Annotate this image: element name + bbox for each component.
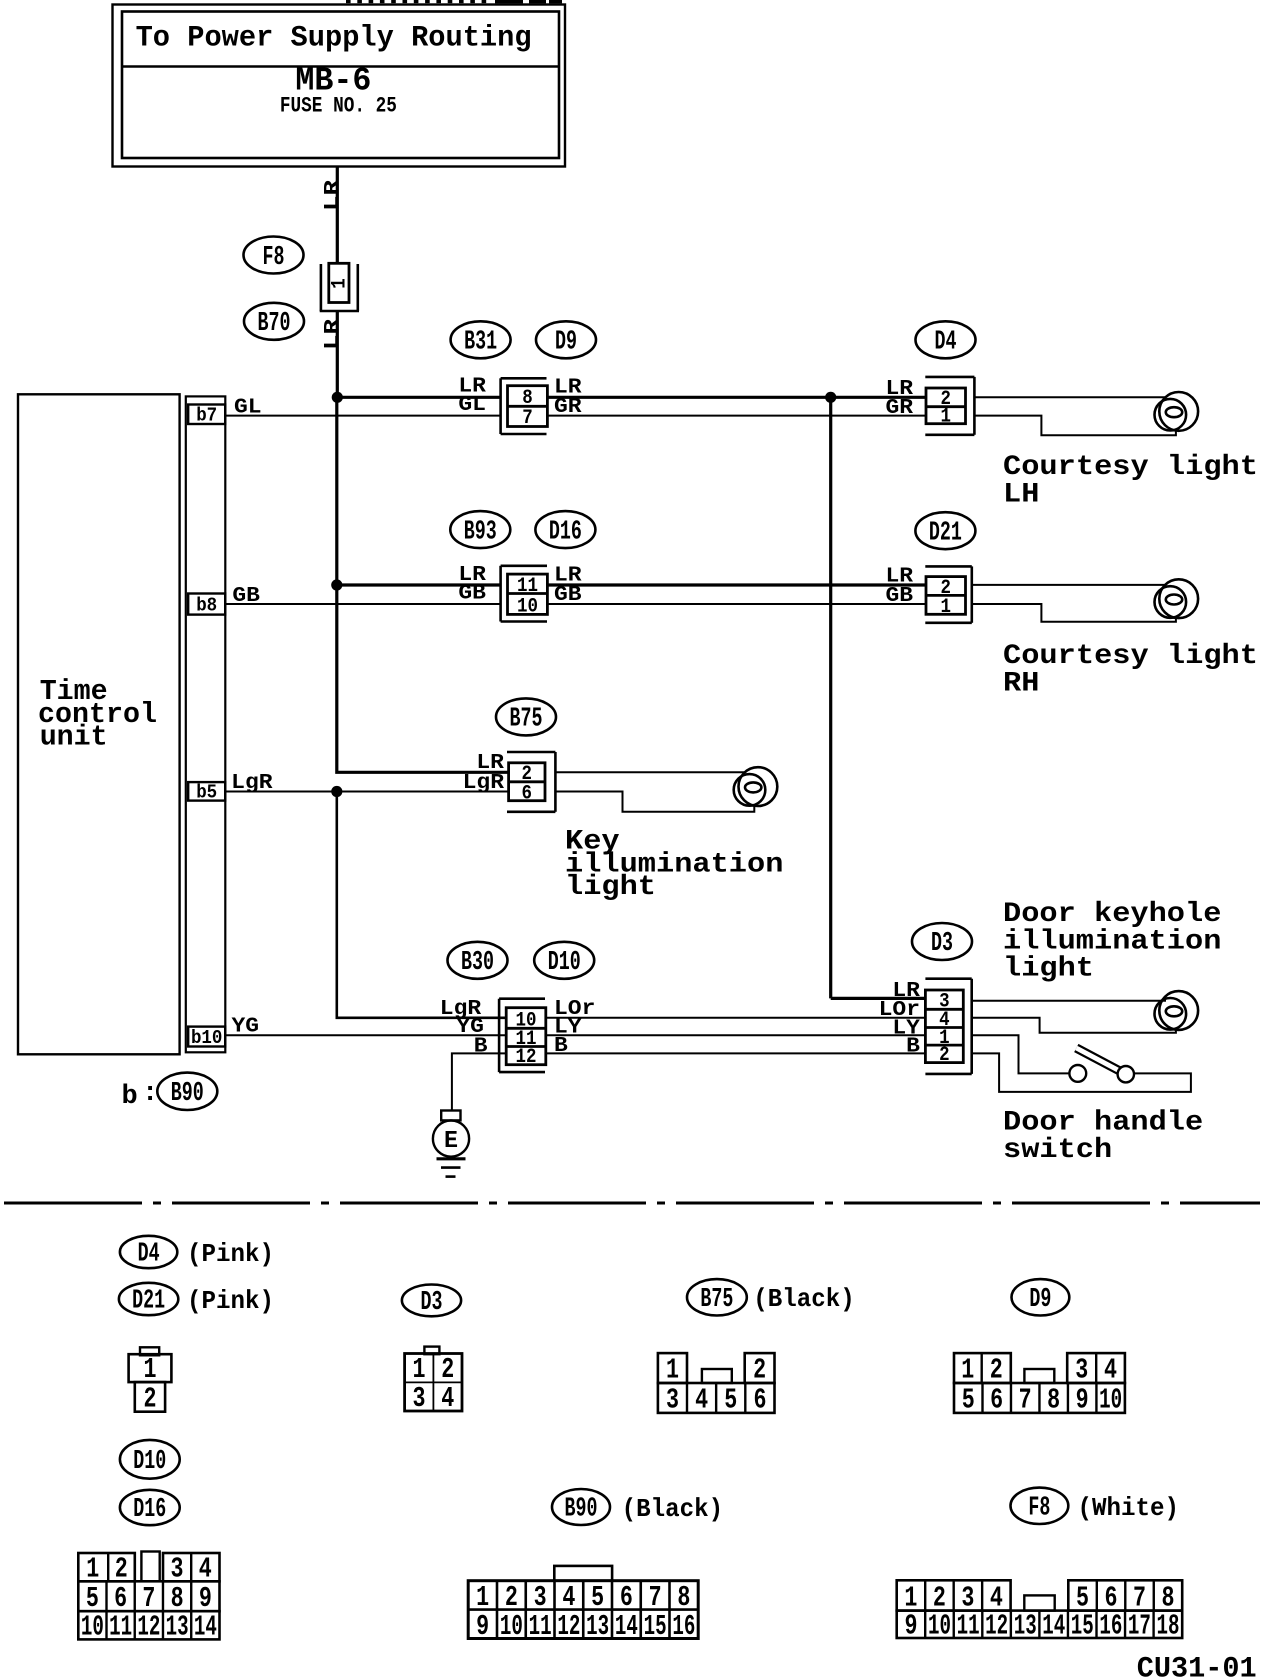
svg-text:1: 1 bbox=[666, 1354, 679, 1387]
svg-text:3: 3 bbox=[666, 1384, 679, 1417]
svg-text:(Pink): (Pink) bbox=[187, 1286, 274, 1316]
svg-text:1: 1 bbox=[940, 596, 951, 619]
svg-text:11: 11 bbox=[109, 1611, 132, 1644]
svg-text:7: 7 bbox=[1019, 1384, 1032, 1417]
svg-text:YG: YG bbox=[232, 1015, 260, 1038]
svg-text:10: 10 bbox=[81, 1611, 104, 1644]
svg-text:14: 14 bbox=[1042, 1610, 1065, 1643]
svg-text:B90: B90 bbox=[565, 1495, 598, 1525]
svg-text:GB: GB bbox=[458, 583, 486, 606]
svg-text:LR: LR bbox=[322, 319, 345, 350]
svg-text:GB: GB bbox=[886, 585, 914, 608]
svg-text:GB: GB bbox=[232, 585, 260, 608]
svg-text:16: 16 bbox=[1099, 1610, 1122, 1643]
svg-text:F8: F8 bbox=[1028, 1494, 1050, 1524]
svg-text:(White): (White) bbox=[1078, 1493, 1180, 1523]
svg-text:7: 7 bbox=[522, 407, 533, 430]
svg-text:D4: D4 bbox=[138, 1239, 160, 1269]
svg-text:LR: LR bbox=[322, 180, 345, 211]
svg-text:14: 14 bbox=[194, 1611, 217, 1644]
svg-text:12: 12 bbox=[137, 1611, 160, 1644]
svg-text:Courtesy light: Courtesy light bbox=[1003, 452, 1258, 483]
svg-text:3: 3 bbox=[1075, 1354, 1088, 1387]
svg-text:9: 9 bbox=[476, 1610, 489, 1643]
svg-text:2: 2 bbox=[144, 1383, 157, 1416]
svg-text:B75: B75 bbox=[700, 1285, 733, 1315]
svg-text:17: 17 bbox=[1128, 1610, 1151, 1643]
svg-text:switch: switch bbox=[1003, 1135, 1112, 1166]
svg-text:10: 10 bbox=[1099, 1384, 1122, 1417]
svg-text:B31: B31 bbox=[464, 328, 497, 358]
svg-text:12: 12 bbox=[516, 1046, 537, 1069]
svg-text:D10: D10 bbox=[548, 948, 581, 978]
svg-text:9: 9 bbox=[905, 1610, 918, 1643]
svg-text:LH: LH bbox=[1003, 480, 1039, 511]
svg-text:16: 16 bbox=[672, 1610, 695, 1643]
svg-text:(Pink): (Pink) bbox=[187, 1239, 274, 1269]
svg-text:B30: B30 bbox=[461, 948, 494, 978]
svg-text:1: 1 bbox=[961, 1354, 974, 1387]
svg-text:15: 15 bbox=[644, 1610, 667, 1643]
svg-text:6: 6 bbox=[753, 1384, 766, 1417]
svg-text:B70: B70 bbox=[258, 309, 291, 339]
svg-text:2: 2 bbox=[939, 1044, 950, 1067]
svg-text:To Power Supply Routing: To Power Supply Routing bbox=[136, 22, 532, 56]
svg-text:6: 6 bbox=[522, 782, 533, 805]
svg-text:light: light bbox=[565, 872, 656, 903]
svg-text:Courtesy light: Courtesy light bbox=[1003, 641, 1258, 672]
svg-text:1: 1 bbox=[329, 278, 352, 289]
svg-text:12: 12 bbox=[985, 1610, 1008, 1643]
svg-text::: : bbox=[142, 1079, 158, 1109]
svg-text:4: 4 bbox=[695, 1384, 708, 1417]
svg-text:LgR: LgR bbox=[231, 772, 273, 795]
svg-text:2: 2 bbox=[753, 1354, 766, 1387]
svg-text:2: 2 bbox=[990, 1354, 1003, 1387]
svg-text:F8: F8 bbox=[263, 243, 285, 273]
svg-text:B: B bbox=[474, 1036, 488, 1059]
svg-text:b8: b8 bbox=[196, 595, 217, 617]
svg-text:B: B bbox=[554, 1035, 568, 1058]
svg-text:D10: D10 bbox=[133, 1447, 166, 1477]
svg-text:D3: D3 bbox=[421, 1288, 443, 1318]
svg-text:15: 15 bbox=[1071, 1610, 1094, 1643]
svg-text:13: 13 bbox=[586, 1610, 609, 1643]
svg-text:D16: D16 bbox=[549, 517, 582, 547]
svg-text:FUSE NO. 25: FUSE NO. 25 bbox=[280, 94, 397, 119]
svg-text:b7: b7 bbox=[196, 405, 217, 427]
svg-text:1: 1 bbox=[940, 405, 951, 428]
svg-text:E: E bbox=[444, 1128, 458, 1155]
svg-text:11: 11 bbox=[957, 1610, 980, 1643]
svg-text:Door handle: Door handle bbox=[1003, 1108, 1203, 1139]
svg-text:3: 3 bbox=[413, 1382, 426, 1415]
svg-text:light: light bbox=[1003, 954, 1094, 985]
svg-text:(Black): (Black) bbox=[622, 1494, 724, 1524]
svg-text:14: 14 bbox=[615, 1610, 638, 1643]
svg-text:LgR: LgR bbox=[463, 772, 505, 795]
svg-text:D9: D9 bbox=[555, 328, 577, 358]
svg-text:4: 4 bbox=[441, 1382, 454, 1415]
svg-text:D21: D21 bbox=[929, 518, 962, 548]
svg-text:12: 12 bbox=[557, 1610, 580, 1643]
svg-text:B75: B75 bbox=[510, 705, 543, 735]
svg-text:(Black): (Black) bbox=[753, 1284, 855, 1314]
svg-text:GL: GL bbox=[458, 394, 486, 417]
svg-text:B90: B90 bbox=[171, 1079, 204, 1109]
svg-text:D4: D4 bbox=[935, 328, 957, 358]
svg-text:D3: D3 bbox=[931, 929, 953, 959]
svg-text:6: 6 bbox=[990, 1384, 1003, 1417]
svg-text:13: 13 bbox=[1014, 1610, 1037, 1643]
svg-text:D9: D9 bbox=[1029, 1285, 1051, 1315]
svg-text:18: 18 bbox=[1156, 1610, 1179, 1643]
svg-text:B: B bbox=[906, 1036, 920, 1059]
svg-text:GL: GL bbox=[234, 397, 262, 420]
svg-text:CU31-01: CU31-01 bbox=[1137, 1653, 1257, 1678]
svg-text:13: 13 bbox=[166, 1611, 189, 1644]
svg-text:b10: b10 bbox=[191, 1027, 223, 1049]
svg-text:B93: B93 bbox=[464, 517, 497, 547]
svg-text:4: 4 bbox=[1104, 1354, 1117, 1387]
svg-text:10: 10 bbox=[928, 1610, 951, 1643]
svg-text:11: 11 bbox=[529, 1610, 552, 1643]
svg-text:10: 10 bbox=[500, 1610, 523, 1643]
svg-text:b: b bbox=[122, 1082, 138, 1112]
svg-text:D16: D16 bbox=[133, 1495, 166, 1525]
svg-text:5: 5 bbox=[962, 1384, 975, 1417]
svg-text:unit: unit bbox=[40, 721, 108, 754]
svg-text:D21: D21 bbox=[132, 1286, 165, 1316]
svg-text:9: 9 bbox=[1076, 1384, 1089, 1417]
svg-text:8: 8 bbox=[1047, 1384, 1060, 1417]
svg-text:5: 5 bbox=[724, 1384, 737, 1417]
svg-text:GR: GR bbox=[886, 397, 914, 420]
svg-text:b5: b5 bbox=[196, 782, 217, 804]
svg-text:RH: RH bbox=[1003, 669, 1039, 700]
svg-text:10: 10 bbox=[517, 596, 538, 619]
